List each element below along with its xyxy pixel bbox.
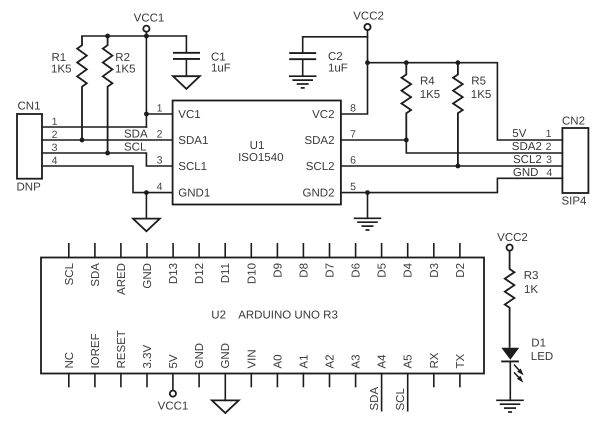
svg-text:SCL1: SCL1 — [178, 161, 207, 173]
svg-text:D3: D3 — [429, 263, 441, 278]
svg-text:4: 4 — [157, 181, 163, 193]
U2 bottom pin GND — [220, 343, 232, 369]
svg-text:D12: D12 — [194, 263, 206, 284]
svg-text:D5: D5 — [377, 263, 389, 278]
wire U2 GND bottom stub — [224, 374, 226, 401]
wire U1 pin6 SCL2 to CN2 pin3 — [341, 165, 563, 167]
ground triangle C1 — [173, 76, 200, 89]
U2 bottom pin A2 — [325, 354, 337, 386]
svg-text:D11: D11 — [220, 263, 232, 283]
svg-text:LED: LED — [531, 351, 553, 363]
U2 bottom pin GND — [194, 343, 206, 387]
svg-text:1uF: 1uF — [211, 63, 231, 75]
resistor R5 — [453, 63, 491, 166]
svg-text:GND: GND — [220, 343, 232, 369]
svg-text:6: 6 — [350, 155, 356, 167]
svg-text:A1: A1 — [298, 354, 310, 368]
svg-text:R4: R4 — [420, 76, 435, 88]
U2 bottom pin RESET — [116, 330, 128, 386]
wire GND1 drop — [145, 193, 147, 219]
capacitor C1 — [173, 36, 231, 76]
svg-text:U1: U1 — [250, 140, 265, 152]
diode D1 LED — [501, 337, 553, 400]
svg-text:SCL: SCL — [124, 142, 147, 154]
junction VCC1/pin1 — [144, 112, 149, 117]
svg-text:4: 4 — [546, 167, 552, 179]
svg-text:2: 2 — [546, 141, 552, 153]
svg-text:GND2: GND2 — [303, 187, 335, 199]
wire GND2 drop — [367, 193, 369, 219]
ground earth C2 — [289, 76, 317, 88]
microcontroller U2 Arduino box — [41, 258, 484, 374]
svg-text:A5: A5 — [403, 354, 415, 368]
svg-text:1K: 1K — [524, 284, 538, 296]
ground triangle GND1 — [133, 219, 160, 232]
svg-text:SDA: SDA — [124, 129, 148, 141]
svg-text:SIP4: SIP4 — [562, 196, 588, 208]
svg-text:D9: D9 — [272, 263, 284, 278]
svg-text:3.3V: 3.3V — [142, 345, 154, 369]
VCC2 lower terminal circle — [507, 245, 513, 251]
U2 bottom pin A4 — [377, 354, 389, 411]
svg-text:SDA2: SDA2 — [304, 135, 334, 147]
svg-text:1K5: 1K5 — [420, 89, 440, 101]
svg-text:R1: R1 — [52, 52, 67, 64]
junction R2 bottom on SCL row — [105, 151, 110, 156]
svg-text:3: 3 — [157, 155, 163, 167]
svg-text:ARDUINO UNO R3: ARDUINO UNO R3 — [238, 310, 338, 322]
resistor R3 — [505, 251, 539, 348]
U2 bottom pin A0 — [272, 354, 284, 386]
svg-text:SCL2: SCL2 — [306, 161, 335, 173]
svg-text:RX: RX — [429, 352, 441, 368]
svg-text:DNP: DNP — [17, 182, 42, 194]
wire VCC2 rail to 5V — [368, 63, 563, 140]
U2 top pin D11 — [220, 244, 232, 283]
svg-text:RESET: RESET — [116, 330, 128, 368]
svg-text:C2: C2 — [328, 51, 343, 63]
U2 top pin SCL — [64, 244, 76, 286]
svg-text:5V: 5V — [512, 128, 526, 140]
svg-text:GND: GND — [194, 343, 206, 369]
junction GND1 — [144, 190, 149, 195]
wire top rail y36 — [82, 35, 186, 37]
U2 top pin D9 — [272, 244, 284, 278]
wire VCC2 vertical to U1 pin8 — [341, 30, 368, 114]
svg-text:5V: 5V — [168, 354, 180, 368]
resistor R4 — [402, 63, 441, 140]
svg-text:SCL2: SCL2 — [513, 154, 542, 166]
svg-text:GND: GND — [513, 167, 539, 179]
svg-text:3: 3 — [546, 154, 552, 166]
junction R5 bottom — [456, 164, 461, 169]
wire SCL row CN1 pin3 to U1 pin3 — [42, 153, 173, 166]
svg-text:D8: D8 — [298, 263, 310, 278]
svg-text:VCC1: VCC1 — [134, 13, 165, 25]
VCC1 bottom terminal circle — [170, 391, 176, 397]
connector CN1 — [17, 101, 43, 194]
svg-text:D7: D7 — [325, 263, 337, 278]
svg-text:U2: U2 — [211, 310, 226, 322]
svg-text:5: 5 — [350, 181, 356, 193]
svg-text:D10: D10 — [246, 263, 258, 284]
svg-text:D6: D6 — [351, 263, 363, 278]
svg-text:VCC1: VCC1 — [158, 401, 189, 413]
U2 top pin D2 — [455, 244, 467, 278]
wire C2 branch — [303, 36, 368, 38]
svg-text:SDA: SDA — [369, 387, 381, 411]
U2 bottom pin RX — [429, 352, 441, 386]
svg-text:A3: A3 — [351, 354, 363, 368]
svg-text:CN1: CN1 — [18, 101, 41, 113]
U2 bottom pin A3 — [351, 354, 363, 386]
svg-text:SDA2: SDA2 — [512, 141, 542, 153]
junction top rail VCC1 — [144, 34, 149, 39]
svg-text:VIN: VIN — [246, 349, 258, 368]
U2 top pin D5 — [377, 244, 389, 278]
VCC1 terminal circle — [143, 26, 149, 32]
svg-text:R3: R3 — [524, 270, 539, 282]
svg-text:R2: R2 — [115, 52, 130, 64]
junction R1 bottom on SDA row — [80, 138, 85, 143]
svg-text:R5: R5 — [471, 76, 486, 88]
svg-text:SCL: SCL — [64, 262, 76, 285]
wire VCC1 vertical — [145, 32, 147, 127]
svg-text:GND1: GND1 — [178, 187, 210, 199]
resistor R1 — [51, 36, 87, 140]
svg-text:VC2: VC2 — [312, 109, 334, 121]
svg-text:1K5: 1K5 — [51, 63, 71, 75]
ground earth D1 — [496, 400, 524, 412]
svg-text:GND: GND — [142, 263, 154, 289]
svg-text:ARED: ARED — [116, 263, 128, 295]
U2 top pin D4 — [403, 244, 415, 278]
U2 bottom pin NC — [64, 352, 76, 387]
U2 bottom pin A1 — [298, 354, 310, 386]
svg-text:D1: D1 — [531, 337, 546, 349]
svg-text:NC: NC — [64, 352, 76, 369]
U2 top pin ARED — [116, 244, 128, 295]
U2 bottom pin TX — [455, 353, 467, 386]
wire U1 pin1 stub — [146, 113, 172, 115]
svg-text:VCC2: VCC2 — [353, 11, 384, 23]
svg-text:1K5: 1K5 — [115, 63, 135, 75]
svg-text:2: 2 — [157, 129, 163, 141]
U2 top pin D13 — [168, 244, 180, 284]
U2 top pin GND — [142, 244, 154, 289]
svg-text:CN2: CN2 — [562, 115, 585, 127]
wire SDA row CN1 pin2 to U1 pin2 — [42, 139, 173, 141]
U2 bottom pin 3.3V — [142, 345, 154, 387]
wire U1 pin7 SDA2 to CN2 pin2 — [341, 140, 563, 153]
svg-text:VCC2: VCC2 — [497, 232, 528, 244]
svg-text:D4: D4 — [403, 262, 415, 277]
U2 bottom pin 5V — [168, 354, 180, 368]
svg-text:1uF: 1uF — [328, 63, 348, 75]
connector CN2 — [562, 115, 589, 207]
svg-text:7: 7 — [350, 129, 356, 141]
junction R5 top — [456, 60, 461, 65]
wire U1 pin5 GND2 to CN2 pin4 — [341, 178, 563, 192]
U2 top pin D6 — [351, 244, 363, 278]
svg-text:A0: A0 — [272, 354, 284, 368]
svg-text:D2: D2 — [455, 263, 467, 278]
junction R4 top — [404, 60, 409, 65]
svg-text:VC1: VC1 — [178, 109, 200, 121]
svg-text:SDA: SDA — [90, 263, 102, 287]
svg-text:SCL: SCL — [395, 388, 407, 411]
U2 bottom pin IOREF — [90, 333, 102, 386]
svg-text:TX: TX — [455, 353, 467, 368]
wire VCC1 bottom stub — [172, 374, 174, 391]
svg-text:SDA1: SDA1 — [178, 135, 208, 147]
junction GND2 — [365, 190, 370, 195]
svg-text:8: 8 — [350, 103, 356, 115]
VCC2 terminal circle — [364, 24, 370, 30]
svg-text:D13: D13 — [168, 263, 180, 284]
capacitor C2 — [289, 37, 348, 76]
junction VCC2 rail start — [365, 60, 370, 65]
U2 top pin D8 — [298, 244, 310, 278]
U2 top pin SDA — [90, 244, 102, 287]
svg-text:1K5: 1K5 — [471, 89, 491, 101]
U2 top pin D7 — [325, 244, 337, 278]
wire CN1 pin4 to U1 pin4 — [42, 166, 173, 193]
junction R4 bottom — [404, 138, 409, 143]
U2 bottom pin A5 — [403, 354, 415, 410]
U2 top pin D10 — [246, 244, 258, 284]
U2 top pin D3 — [429, 244, 441, 278]
op-amp U1 ISO1540 box — [173, 101, 341, 205]
svg-text:A4: A4 — [377, 354, 389, 369]
resistor R2 — [103, 36, 136, 153]
svg-text:1: 1 — [546, 128, 552, 140]
U2 bottom pin VIN — [246, 349, 258, 386]
svg-text:ISO1540: ISO1540 — [238, 152, 283, 164]
net VCC1 top label — [134, 13, 165, 25]
svg-text:IOREF: IOREF — [90, 333, 102, 368]
ground triangle U2 — [212, 400, 239, 413]
svg-text:A2: A2 — [325, 354, 337, 368]
svg-text:1: 1 — [157, 103, 163, 115]
wire CN1 pin1 to U1 pin1 — [42, 126, 146, 128]
junction top rail R2 — [105, 34, 110, 39]
U2 top pin D12 — [194, 244, 206, 284]
ground earth GND2 — [354, 218, 382, 230]
